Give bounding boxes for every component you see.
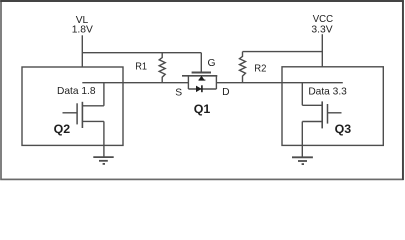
svg-text:R1: R1 — [135, 62, 147, 73]
transistor Q2 — [63, 83, 104, 157]
wire gate vertical — [200, 53, 202, 72]
Q1 body diode — [196, 86, 202, 93]
ground left — [93, 157, 113, 164]
svg-text:VCC: VCC — [313, 14, 334, 25]
transistor Q3 — [302, 83, 341, 158]
svg-text:G: G — [207, 58, 215, 69]
svg-text:1.8V: 1.8V — [72, 25, 93, 36]
transistor Q1 — [182, 73, 217, 90]
border frame — [1, 1, 403, 179]
svg-text:Data 1.8: Data 1.8 — [57, 86, 96, 97]
svg-text:3.3V: 3.3V — [311, 25, 332, 36]
wire VL vertical — [81, 35, 83, 67]
ground right — [292, 157, 313, 164]
svg-text:Data 3.3: Data 3.3 — [308, 87, 347, 98]
box device 1.8V — [22, 67, 123, 145]
resistor R2 — [240, 52, 246, 83]
wire left rail VL to gate — [82, 52, 201, 54]
wire VCC vertical — [321, 34, 323, 67]
resistor R1 — [159, 53, 165, 83]
svg-text:Q1: Q1 — [194, 102, 211, 116]
svg-text:R2: R2 — [254, 64, 266, 75]
box device 3.3V — [282, 67, 383, 146]
svg-text:S: S — [175, 88, 182, 99]
svg-text:D: D — [222, 87, 229, 98]
svg-text:Q2: Q2 — [54, 122, 71, 136]
wire bus S side — [82, 82, 188, 84]
wire bus D side — [216, 82, 342, 84]
wire right rail R2 to VCC — [243, 51, 323, 53]
svg-text:Q3: Q3 — [335, 122, 352, 136]
Q1 body arrow — [198, 76, 204, 81]
